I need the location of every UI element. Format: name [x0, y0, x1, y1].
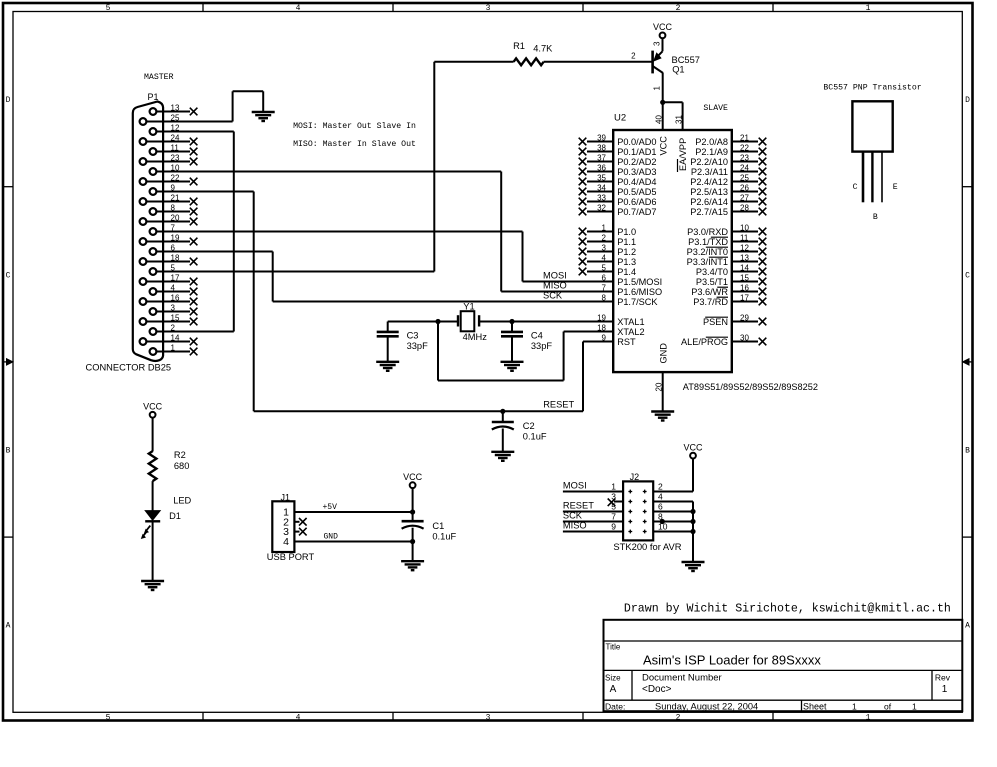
svg-text:5: 5	[106, 714, 111, 723]
svg-text:P3.7/RD: P3.7/RD	[693, 297, 728, 307]
svg-text:14: 14	[740, 263, 749, 272]
svg-text:27: 27	[740, 193, 749, 202]
svg-text:4: 4	[296, 714, 301, 723]
svg-text:XTAL1: XTAL1	[617, 317, 644, 327]
svg-text:2: 2	[658, 482, 663, 492]
svg-text:VCC: VCC	[403, 472, 423, 482]
svg-text:J1: J1	[281, 492, 291, 502]
svg-text:36: 36	[597, 163, 606, 172]
svg-text:MISO: Master In Slave Out: MISO: Master In Slave Out	[293, 139, 416, 149]
svg-text:2: 2	[676, 4, 681, 13]
svg-text:P2.4/A12: P2.4/A12	[690, 177, 728, 187]
svg-text:P0.1/AD1: P0.1/AD1	[617, 147, 656, 157]
svg-text:P2.2/A10: P2.2/A10	[690, 157, 728, 167]
svg-text:P2.3/A11: P2.3/A11	[691, 167, 728, 177]
svg-text:3: 3	[602, 243, 607, 252]
svg-text:STK200 for AVR: STK200 for AVR	[613, 541, 681, 552]
svg-text:of: of	[884, 702, 892, 712]
svg-text:17: 17	[740, 293, 749, 302]
svg-text:C: C	[853, 183, 858, 192]
svg-text:GND: GND	[659, 343, 669, 364]
svg-text:C1: C1	[432, 521, 444, 531]
svg-text:XTAL2: XTAL2	[617, 327, 644, 337]
svg-text:6: 6	[602, 273, 607, 282]
svg-text:23: 23	[171, 154, 180, 163]
svg-text:Date:: Date:	[605, 702, 625, 712]
svg-text:4: 4	[602, 253, 607, 262]
svg-text:2: 2	[676, 714, 681, 723]
svg-text:D1: D1	[169, 511, 181, 521]
svg-text:P0.6/AD6: P0.6/AD6	[617, 197, 656, 207]
svg-text:22: 22	[740, 143, 749, 152]
svg-text:6: 6	[171, 244, 176, 253]
svg-text:MISO: MISO	[563, 521, 587, 531]
svg-text:3: 3	[486, 714, 491, 723]
svg-text:10: 10	[740, 223, 749, 232]
svg-text:1: 1	[866, 714, 871, 723]
svg-text:MOSI: Master Out Slave In: MOSI: Master Out Slave In	[293, 121, 416, 131]
svg-text:P3.5/T1: P3.5/T1	[696, 277, 728, 287]
svg-text:17: 17	[171, 274, 180, 283]
svg-text:P3.4/T0: P3.4/T0	[696, 267, 728, 277]
svg-text:4: 4	[296, 4, 301, 13]
svg-text:1: 1	[852, 702, 857, 712]
svg-text:3: 3	[653, 41, 662, 46]
svg-text:VCC: VCC	[143, 402, 163, 412]
svg-text:9: 9	[171, 184, 176, 193]
svg-text:4: 4	[283, 536, 289, 548]
svg-text:LED: LED	[173, 496, 191, 506]
svg-text:Drawn by Wichit Sirichote, ksw: Drawn by Wichit Sirichote, kswichit@kmit…	[624, 603, 951, 616]
svg-text:D: D	[965, 96, 970, 105]
svg-text:33pF: 33pF	[531, 341, 553, 351]
svg-text:P0.4/AD4: P0.4/AD4	[617, 177, 656, 187]
svg-text:A: A	[6, 622, 11, 631]
svg-text:MOSI: MOSI	[543, 270, 567, 280]
svg-text:7: 7	[171, 224, 176, 233]
svg-text:CONNECTOR DB25: CONNECTOR DB25	[86, 363, 172, 373]
svg-text:24: 24	[171, 134, 180, 143]
svg-text:1: 1	[602, 223, 607, 232]
svg-text:11: 11	[740, 233, 749, 242]
svg-text:31: 31	[675, 115, 684, 124]
svg-text:1: 1	[653, 86, 662, 91]
svg-text:6: 6	[658, 502, 663, 512]
svg-text:680: 680	[174, 461, 190, 471]
svg-text:0.1uF: 0.1uF	[523, 432, 547, 442]
svg-text:AT89S51/89S52/89S52/89S8252: AT89S51/89S52/89S52/89S8252	[683, 382, 818, 392]
svg-text:J2: J2	[630, 472, 640, 482]
svg-text:P1.7/SCK: P1.7/SCK	[617, 297, 658, 307]
svg-text:P0.3/AD3: P0.3/AD3	[617, 167, 656, 177]
svg-text:B: B	[6, 447, 11, 456]
svg-text:10: 10	[171, 164, 180, 173]
svg-text:E: E	[893, 183, 898, 192]
svg-text:28: 28	[740, 203, 749, 212]
svg-text:Sunday, August 22, 2004: Sunday, August 22, 2004	[655, 702, 758, 712]
svg-text:2: 2	[602, 233, 607, 242]
svg-text:24: 24	[740, 163, 749, 172]
svg-text:16: 16	[171, 294, 180, 303]
svg-text:RESET: RESET	[563, 501, 594, 511]
svg-text:P1.5/MOSI: P1.5/MOSI	[617, 277, 662, 287]
svg-text:12: 12	[171, 124, 180, 133]
svg-text:5: 5	[602, 263, 607, 272]
svg-text:P1.6/MISO: P1.6/MISO	[617, 287, 662, 297]
svg-text:P3.6/WR: P3.6/WR	[691, 287, 728, 297]
svg-text:A: A	[965, 622, 970, 631]
svg-text:+5V: +5V	[323, 503, 338, 512]
svg-text:21: 21	[740, 133, 749, 142]
svg-text:1: 1	[912, 702, 917, 712]
svg-text:16: 16	[740, 283, 749, 292]
svg-text:B: B	[873, 213, 878, 222]
svg-text:13: 13	[171, 104, 180, 113]
svg-text:1: 1	[866, 4, 871, 13]
svg-text:<Doc>: <Doc>	[642, 684, 672, 695]
svg-text:Sheet: Sheet	[803, 702, 827, 712]
svg-text:B: B	[965, 447, 970, 456]
svg-text:13: 13	[740, 253, 749, 262]
svg-text:Y1: Y1	[463, 301, 474, 311]
svg-text:EA/VPP: EA/VPP	[678, 138, 688, 171]
svg-text:10: 10	[658, 522, 668, 532]
svg-text:RST: RST	[617, 337, 636, 347]
svg-text:VCC: VCC	[683, 442, 703, 452]
svg-text:25: 25	[740, 173, 749, 182]
svg-text:Rev: Rev	[935, 673, 951, 683]
svg-text:P1.0: P1.0	[617, 227, 636, 237]
svg-text:C3: C3	[407, 331, 419, 341]
svg-text:SLAVE: SLAVE	[703, 104, 728, 113]
svg-text:P1: P1	[148, 92, 159, 102]
svg-text:14: 14	[171, 334, 180, 343]
svg-text:P3.3/INT1: P3.3/INT1	[687, 257, 728, 267]
svg-text:P3.1/TXD: P3.1/TXD	[688, 237, 728, 247]
svg-text:USB PORT: USB PORT	[267, 552, 315, 562]
svg-text:P0.2/AD2: P0.2/AD2	[617, 157, 656, 167]
svg-text:BC557 PNP Transistor: BC557 PNP Transistor	[823, 83, 921, 93]
svg-text:5: 5	[611, 502, 616, 512]
svg-text:P1.4: P1.4	[617, 267, 636, 277]
svg-text:20: 20	[655, 382, 664, 391]
svg-text:P2.0/A8: P2.0/A8	[695, 137, 728, 147]
svg-text:33pF: 33pF	[407, 341, 429, 351]
svg-text:P2.5/A13: P2.5/A13	[690, 187, 728, 197]
svg-text:P2.6/A14: P2.6/A14	[690, 197, 728, 207]
svg-text:C2: C2	[523, 421, 535, 431]
svg-text:Document Number: Document Number	[642, 673, 722, 684]
svg-text:P0.5/AD5: P0.5/AD5	[617, 187, 656, 197]
svg-text:C: C	[6, 272, 11, 281]
svg-text:D: D	[6, 96, 11, 105]
svg-text:11: 11	[171, 144, 180, 153]
svg-text:40: 40	[655, 115, 664, 124]
svg-text:2: 2	[171, 324, 176, 333]
svg-text:7: 7	[611, 512, 616, 522]
svg-text:39: 39	[597, 133, 606, 142]
svg-text:1: 1	[611, 482, 616, 492]
svg-text:7: 7	[602, 283, 607, 292]
svg-text:R1: R1	[513, 41, 525, 51]
svg-text:MASTER: MASTER	[144, 73, 174, 82]
svg-text:38: 38	[597, 143, 606, 152]
svg-text:4: 4	[658, 492, 663, 502]
svg-text:A: A	[610, 684, 617, 695]
svg-text:9: 9	[611, 522, 616, 532]
svg-text:SCK: SCK	[563, 511, 583, 521]
svg-text:29: 29	[740, 313, 749, 322]
svg-text:P1.2: P1.2	[617, 247, 636, 257]
svg-text:30: 30	[740, 333, 749, 342]
svg-text:25: 25	[171, 114, 180, 123]
svg-text:ALE/PROG: ALE/PROG	[681, 337, 728, 347]
svg-text:R2: R2	[174, 450, 186, 460]
svg-text:1: 1	[942, 684, 948, 695]
svg-text:P2.1/A9: P2.1/A9	[695, 147, 728, 157]
svg-text:Asim's ISP Loader for 89Sxxxx: Asim's ISP Loader for 89Sxxxx	[643, 653, 821, 668]
svg-text:19: 19	[171, 234, 180, 243]
svg-text:4: 4	[171, 284, 176, 293]
svg-text:34: 34	[597, 183, 606, 192]
svg-text:1: 1	[171, 344, 176, 353]
svg-text:P0.0/AD0: P0.0/AD0	[617, 137, 656, 147]
svg-text:5: 5	[171, 264, 176, 273]
svg-text:P3.0/RXD: P3.0/RXD	[687, 227, 728, 237]
svg-text:9: 9	[602, 333, 607, 342]
svg-text:SCK: SCK	[543, 290, 563, 300]
svg-text:8: 8	[171, 204, 176, 213]
svg-text:3: 3	[171, 304, 176, 313]
svg-text:MOSI: MOSI	[563, 481, 587, 491]
svg-text:35: 35	[597, 173, 606, 182]
svg-text:P1.1: P1.1	[617, 237, 636, 247]
svg-text:3: 3	[486, 4, 491, 13]
svg-text:0.1uF: 0.1uF	[432, 532, 456, 542]
svg-text:C4: C4	[531, 331, 543, 341]
svg-text:BC557: BC557	[672, 55, 700, 65]
svg-text:15: 15	[740, 273, 749, 282]
svg-text:8: 8	[658, 512, 663, 522]
svg-text:P1.3: P1.3	[617, 257, 636, 267]
svg-text:P3.2/INT0: P3.2/INT0	[687, 247, 728, 257]
svg-text:26: 26	[740, 183, 749, 192]
svg-text:33: 33	[597, 193, 606, 202]
svg-text:15: 15	[171, 314, 180, 323]
svg-text:20: 20	[171, 214, 180, 223]
svg-text:PSEN: PSEN	[703, 317, 728, 327]
svg-text:4MHz: 4MHz	[463, 332, 488, 342]
svg-text:P2.7/A15: P2.7/A15	[690, 207, 728, 217]
svg-text:23: 23	[740, 153, 749, 162]
svg-text:GND: GND	[324, 533, 339, 542]
svg-text:2: 2	[631, 52, 636, 61]
svg-text:32: 32	[597, 203, 606, 212]
svg-text:U2: U2	[614, 113, 626, 124]
svg-text:5: 5	[106, 4, 111, 13]
svg-text:C: C	[965, 272, 970, 281]
svg-text:VCC: VCC	[658, 136, 668, 156]
svg-text:22: 22	[171, 174, 180, 183]
svg-text:12: 12	[740, 243, 749, 252]
svg-text:VCC: VCC	[653, 22, 673, 32]
svg-text:37: 37	[597, 153, 606, 162]
svg-text:3: 3	[611, 492, 616, 502]
svg-text:8: 8	[602, 293, 607, 302]
svg-text:RESET: RESET	[543, 400, 574, 410]
svg-text:P0.7/AD7: P0.7/AD7	[617, 207, 656, 217]
svg-text:Q1: Q1	[672, 65, 684, 75]
svg-text:4.7K: 4.7K	[533, 44, 553, 54]
svg-text:Size: Size	[605, 674, 621, 683]
svg-text:Title: Title	[606, 643, 621, 652]
svg-text:18: 18	[171, 254, 180, 263]
svg-text:21: 21	[171, 194, 180, 203]
